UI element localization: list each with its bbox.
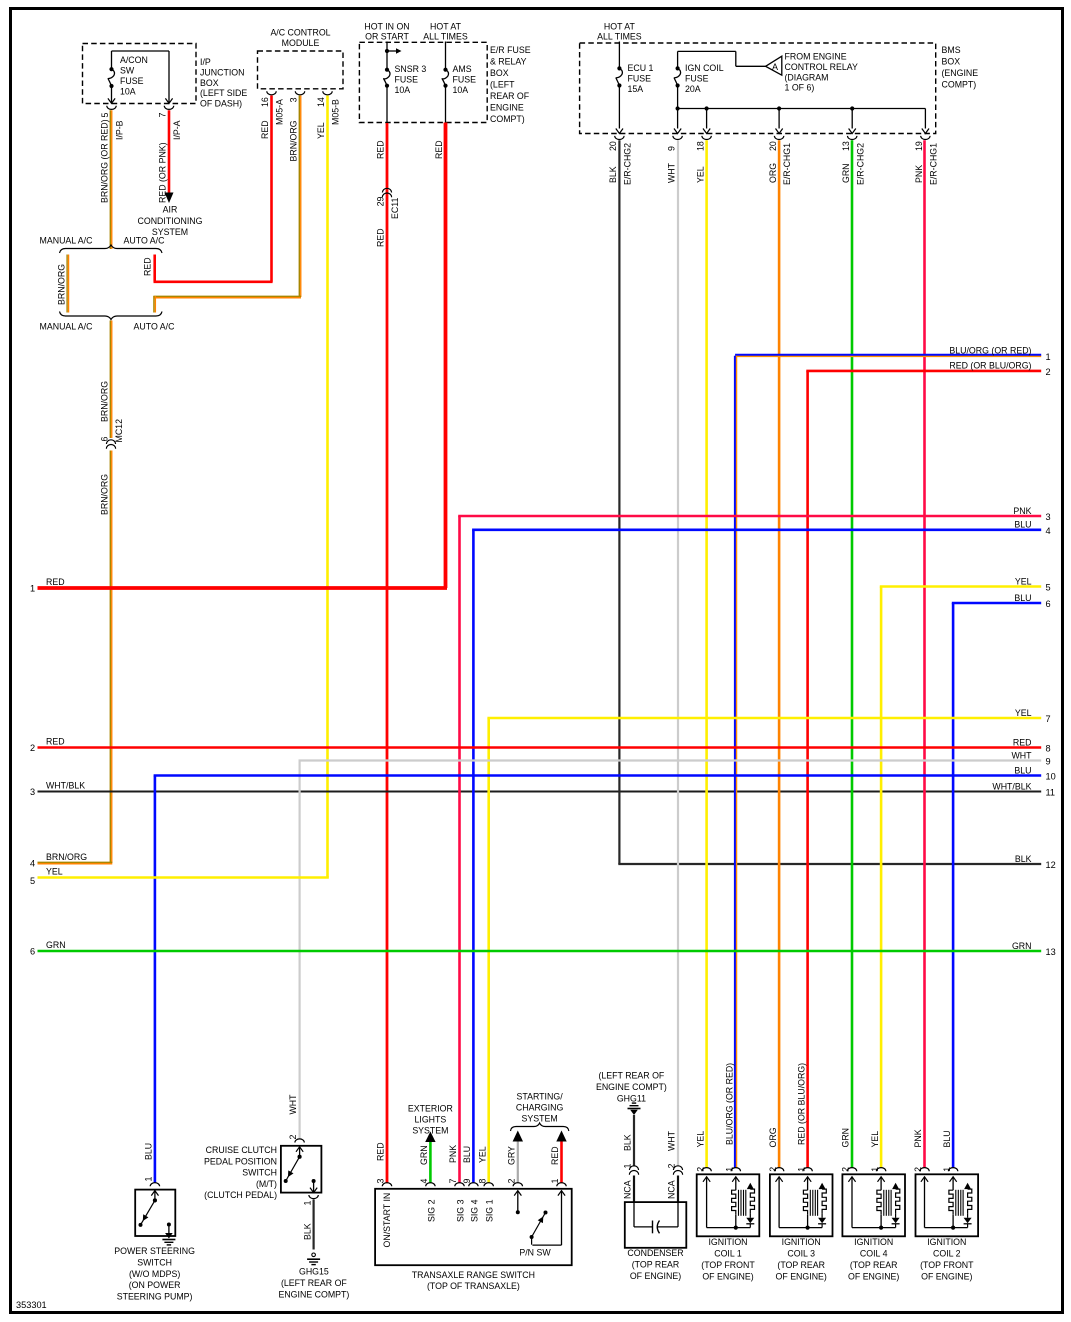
svg-text:2: 2 <box>768 1167 778 1172</box>
pin 16 exit <box>267 91 276 95</box>
svg-text:(ENGINE: (ENGINE <box>942 68 979 78</box>
I/P junction box (dashed) <box>83 44 197 104</box>
svg-text:EXTERIOR: EXTERIOR <box>408 1104 453 1114</box>
svg-text:BLU: BLU <box>1014 765 1031 775</box>
svg-text:2: 2 <box>288 1135 298 1140</box>
svg-text:5: 5 <box>30 876 35 886</box>
svg-text:MANUAL A/C: MANUAL A/C <box>40 322 94 332</box>
svg-text:ALL TIMES: ALL TIMES <box>423 32 468 42</box>
svg-text:3: 3 <box>376 1179 386 1184</box>
internal bus line <box>678 108 926 110</box>
E/R fuse and relay box (dashed) <box>359 42 487 122</box>
coil COIL 2 pin 2 entry <box>920 1168 929 1172</box>
svg-text:RED: RED <box>46 577 65 587</box>
wire RED from SNSR 3 fuse to transaxle pin 3 <box>386 123 389 1183</box>
wire YEL from module pin 14 <box>326 96 329 878</box>
svg-text:BLK: BLK <box>302 1223 312 1240</box>
svg-text:GHG15: GHG15 <box>299 1267 329 1277</box>
svg-text:CONTROL RELAY: CONTROL RELAY <box>785 62 858 72</box>
svg-text:(TOP REAR: (TOP REAR <box>632 1259 680 1269</box>
ignition coil COIL 2 box <box>916 1174 979 1236</box>
svg-text:6: 6 <box>1046 599 1051 609</box>
svg-text:E/R-CHG2: E/R-CHG2 <box>623 143 633 185</box>
exit arrow at x=677.6 <box>674 129 681 134</box>
svg-text:WHT: WHT <box>1011 750 1032 760</box>
svg-text:AUTO A/C: AUTO A/C <box>124 236 166 246</box>
svg-text:(LEFT REAR OF: (LEFT REAR OF <box>281 1278 347 1288</box>
inline connector MC12 <box>106 440 115 444</box>
svg-text:HOT AT: HOT AT <box>604 22 636 32</box>
svg-text:(TOP FRONT: (TOP FRONT <box>920 1260 974 1270</box>
svg-text:1: 1 <box>1046 352 1051 362</box>
svg-text:15A: 15A <box>628 84 644 94</box>
wire BRN/ORG below MC12 to wire 4 <box>109 451 111 864</box>
svg-text:I/P-A: I/P-A <box>172 120 182 140</box>
arrow to air conditioning system <box>165 193 174 204</box>
wire 2 RED (OR BLU/ORG) horizontal <box>806 370 1041 373</box>
svg-text:BLK: BLK <box>623 1134 633 1151</box>
svg-text:2: 2 <box>695 1167 705 1172</box>
svg-text:11: 11 <box>1046 788 1056 798</box>
svg-text:WHT/BLK: WHT/BLK <box>46 780 85 790</box>
svg-text:COMPT): COMPT) <box>490 114 525 124</box>
P/N switch blade <box>531 1237 533 1245</box>
svg-text:7: 7 <box>448 1179 458 1184</box>
internal pin 2 contact <box>514 1191 521 1196</box>
wire 9 WHT horizontal <box>299 759 1042 761</box>
wire 12 BLK horizontal <box>618 863 1041 865</box>
wire 10 BLU horizontal <box>154 774 1042 777</box>
svg-text:RED: RED <box>46 736 65 746</box>
svg-text:I/P-B: I/P-B <box>115 120 125 140</box>
wire YEL to ignition coil 1 pin 2 <box>705 140 708 1168</box>
svg-text:18: 18 <box>695 141 705 151</box>
svg-text:3: 3 <box>1046 512 1051 522</box>
bus drop wires <box>706 109 708 129</box>
fuse A/CON SW 10A <box>111 51 113 69</box>
svg-text:E/R-CHG2: E/R-CHG2 <box>855 143 865 185</box>
svg-text:1: 1 <box>302 1201 312 1206</box>
wire 13 GRN horizontal full width <box>38 950 1042 953</box>
coil COIL 1 primary winding <box>732 1177 739 1182</box>
svg-text:& RELAY: & RELAY <box>490 57 527 67</box>
power steering switch box <box>135 1190 175 1236</box>
svg-text:(W/O MDPS): (W/O MDPS) <box>129 1269 180 1279</box>
svg-text:RED: RED <box>376 228 386 247</box>
svg-text:EC11: EC11 <box>390 198 400 219</box>
svg-text:YEL: YEL <box>695 166 705 183</box>
wire 3 PNK vertical to transaxle pin 7 <box>458 516 461 1183</box>
inline connector EC11 <box>382 188 391 192</box>
svg-text:POWER STEERING: POWER STEERING <box>114 1246 195 1256</box>
pin 1 entry <box>557 1183 566 1187</box>
coil COIL 2 primary winding <box>950 1177 957 1182</box>
svg-text:6: 6 <box>30 947 35 957</box>
wire 11 WHT/BLK horizontal full width <box>38 791 1042 793</box>
svg-text:CRUISE CLUTCH: CRUISE CLUTCH <box>206 1145 277 1155</box>
switch blade <box>286 1157 300 1181</box>
condenser lead wires <box>633 1176 635 1203</box>
wire 7 YEL horizontal <box>487 717 1041 720</box>
svg-text:AMS: AMS <box>453 64 472 74</box>
svg-text:YEL: YEL <box>870 1131 880 1148</box>
arrow from starting/charging to pin 1 <box>556 1131 566 1142</box>
svg-text:(TOP REAR: (TOP REAR <box>850 1260 898 1270</box>
wire RED to transaxle pin 1 <box>560 1142 563 1184</box>
svg-text:3: 3 <box>30 787 35 797</box>
svg-text:BRN/ORG (OR RED): BRN/ORG (OR RED) <box>100 119 110 203</box>
ground GHG11 symbol (inverted) <box>632 1102 636 1104</box>
transaxle range switch box <box>375 1189 572 1265</box>
wire 5 YEL vertical to ignition coil 4 pin 1 <box>880 587 883 1168</box>
svg-text:A: A <box>772 62 778 72</box>
wire 5 YEL horizontal <box>880 585 1041 588</box>
svg-text:ENGINE COMPT): ENGINE COMPT) <box>596 1082 667 1092</box>
svg-text:STEERING PUMP): STEERING PUMP) <box>117 1292 193 1302</box>
svg-text:YEL: YEL <box>316 122 326 139</box>
wire RED from I/P-A <box>168 110 171 192</box>
svg-text:FUSE: FUSE <box>628 73 652 83</box>
svg-text:E/R-CHG1: E/R-CHG1 <box>782 143 792 185</box>
wire 4 BRN/ORG horizontal <box>38 861 113 863</box>
wire RED thick from AMS fuse <box>444 123 448 589</box>
wire WHT to condenser pin 2 <box>677 140 679 1166</box>
svg-text:OF ENGINE): OF ENGINE) <box>921 1271 972 1281</box>
wire BRN/ORG manual a/c branch <box>66 255 68 313</box>
coil COIL 2 pin 1 entry <box>948 1168 957 1172</box>
svg-text:(TOP FRONT: (TOP FRONT <box>701 1260 755 1270</box>
svg-text:RED: RED <box>1013 737 1032 747</box>
wire 6 BLU horizontal <box>952 602 1041 605</box>
svg-text:WHT: WHT <box>667 1130 677 1151</box>
svg-text:OF ENGINE): OF ENGINE) <box>776 1271 827 1281</box>
svg-text:BLU: BLU <box>144 1143 154 1160</box>
svg-text:HOT IN ON: HOT IN ON <box>364 22 409 32</box>
svg-text:CONDENSER: CONDENSER <box>627 1248 683 1258</box>
wire BLK from GHG11 to condenser pin 1 <box>633 1115 635 1167</box>
svg-text:GHG11: GHG11 <box>617 1093 646 1103</box>
svg-text:YEL: YEL <box>1015 708 1032 718</box>
coil COIL 4 pin 1 entry <box>876 1168 885 1172</box>
svg-text:STARTING/: STARTING/ <box>517 1092 564 1102</box>
coil COIL 3 secondary winding <box>819 1183 826 1189</box>
svg-text:1 OF 6): 1 OF 6) <box>785 83 815 93</box>
svg-text:20: 20 <box>768 141 778 151</box>
wire GRY to transaxle pin 2 <box>517 1142 519 1184</box>
junction dot and branch arrow <box>385 49 389 53</box>
svg-text:BRN/ORG: BRN/ORG <box>289 120 299 161</box>
svg-text:FUSE: FUSE <box>453 74 477 84</box>
svg-text:(M/T): (M/T) <box>256 1179 277 1189</box>
switch contact arrow <box>151 1191 158 1196</box>
svg-text:6: 6 <box>100 437 110 442</box>
svg-text:IGNITION: IGNITION <box>927 1237 966 1247</box>
cruise clutch switch box <box>281 1146 322 1193</box>
pin 4 entry <box>426 1183 435 1187</box>
svg-text:12: 12 <box>1046 860 1056 870</box>
wire 5 YEL horizontal <box>38 876 329 879</box>
coil COIL 1 secondary diode <box>746 1218 754 1224</box>
svg-text:COIL 2: COIL 2 <box>933 1249 961 1259</box>
svg-text:RED: RED <box>142 257 152 276</box>
condenser pin 2 connector <box>673 1166 682 1170</box>
svg-text:2: 2 <box>667 1164 677 1169</box>
svg-text:OF ENGINE): OF ENGINE) <box>848 1271 899 1281</box>
svg-text:OF DASH): OF DASH) <box>200 99 242 109</box>
svg-text:SWITCH: SWITCH <box>242 1168 277 1178</box>
svg-text:SIG 3: SIG 3 <box>456 1199 466 1222</box>
svg-text:5: 5 <box>100 113 110 118</box>
svg-text:9: 9 <box>666 146 676 151</box>
svg-text:SW: SW <box>120 66 135 76</box>
exit arrow at x=925.4 <box>922 129 929 134</box>
svg-text:1: 1 <box>144 1177 154 1182</box>
wire 2 RED vertical to ignition coil 3 pin 1 <box>806 371 809 1168</box>
coil COIL 1 pin 1 entry <box>731 1168 740 1172</box>
svg-text:ORG: ORG <box>768 1127 778 1147</box>
svg-text:GRN: GRN <box>419 1145 429 1165</box>
svg-text:FUSE: FUSE <box>395 74 419 84</box>
switch blade <box>141 1200 155 1225</box>
coil COIL 3 secondary diode <box>818 1218 826 1224</box>
wire 8 RED horizontal full width <box>38 746 1042 749</box>
coil COIL 1 primary-left lead <box>703 1177 710 1182</box>
svg-text:14: 14 <box>316 97 326 107</box>
svg-text:10A: 10A <box>395 85 411 95</box>
link from engine control relay <box>678 50 736 52</box>
svg-text:WHT/BLK: WHT/BLK <box>992 781 1031 791</box>
coil COIL 2 secondary winding <box>964 1183 971 1189</box>
svg-text:ALL TIMES: ALL TIMES <box>597 32 642 42</box>
wire 9 WHT vertical to cruise clutch switch pin 2 <box>299 761 301 1140</box>
svg-text:BLK: BLK <box>608 166 618 183</box>
svg-text:BOX: BOX <box>200 78 219 88</box>
svg-text:IGNITION: IGNITION <box>854 1237 893 1247</box>
coil COIL 4 primary-left lead <box>848 1177 855 1182</box>
svg-text:2: 2 <box>913 1167 923 1172</box>
svg-text:8: 8 <box>477 1179 487 1184</box>
wire BRN/ORG from module pin 3 <box>298 96 300 298</box>
wire PNK to ignition coil 2 pin 2 <box>923 140 926 1168</box>
svg-text:4: 4 <box>30 859 35 869</box>
svg-text:M05-A: M05-A <box>275 99 285 125</box>
svg-text:BRN/ORG: BRN/ORG <box>100 474 110 515</box>
ignition coil COIL 1 box <box>697 1174 760 1236</box>
wire hot at all times feed to ECU 1 fuse <box>618 42 620 69</box>
svg-text:4: 4 <box>1046 526 1051 536</box>
svg-text:(DIAGRAM: (DIAGRAM <box>785 72 829 82</box>
svg-text:BMS: BMS <box>942 45 961 55</box>
svg-text:ORG: ORG <box>768 163 778 183</box>
svg-text:RED: RED <box>376 140 386 159</box>
svg-text:20: 20 <box>608 141 618 151</box>
ignition coil COIL 3 box <box>770 1174 833 1236</box>
inner link I/P box <box>112 50 170 52</box>
coil COIL 1 pin 2 entry <box>702 1168 711 1172</box>
svg-text:RED: RED <box>434 140 444 159</box>
svg-text:MODULE: MODULE <box>282 38 320 48</box>
exit arrow at x=619.4 <box>616 129 623 134</box>
switch contact arrow <box>296 1147 303 1152</box>
coil COIL 3 primary-left lead <box>776 1177 783 1182</box>
wire BRN/ORG merged below brace <box>109 321 111 439</box>
svg-text:(LEFT: (LEFT <box>490 80 515 90</box>
wire 3 PNK horizontal <box>458 515 1041 518</box>
wire ORG to ignition coil 3 pin 2 <box>778 140 781 1168</box>
internal pin 1 line P/N switch <box>558 1191 565 1196</box>
svg-text:A/C CONTROL: A/C CONTROL <box>270 28 330 38</box>
svg-text:OF ENGINE): OF ENGINE) <box>702 1271 753 1281</box>
coil COIL 4 pin 2 entry <box>847 1168 856 1172</box>
svg-text:5: 5 <box>1046 583 1051 593</box>
svg-text:20A: 20A <box>685 84 701 94</box>
svg-text:2: 2 <box>1046 367 1051 377</box>
pin 9 entry <box>469 1183 478 1187</box>
ignition coil COIL 4 box <box>842 1174 905 1236</box>
svg-text:MANUAL A/C: MANUAL A/C <box>40 236 94 246</box>
svg-text:NCA: NCA <box>667 1180 677 1199</box>
wire 4 BLU horizontal <box>472 528 1041 531</box>
svg-text:RED: RED <box>550 1146 560 1165</box>
coil COIL 2 secondary diode <box>964 1218 972 1224</box>
svg-text:7: 7 <box>1046 714 1051 724</box>
svg-text:(LEFT REAR OF: (LEFT REAR OF <box>598 1071 664 1081</box>
relay source triangle A <box>766 56 782 75</box>
fuse AMS 10A <box>443 68 447 72</box>
exit arrow at x=852.2 <box>849 129 856 134</box>
wire GRN to transaxle pin 4 <box>429 1142 432 1183</box>
svg-text:BOX: BOX <box>942 57 961 67</box>
fuse IGN COIL 20A <box>677 51 679 68</box>
svg-text:9: 9 <box>1046 757 1051 767</box>
exit arrow at x=779.1 <box>776 129 783 134</box>
A/C control module box (dashed) <box>258 51 344 89</box>
svg-text:E/R-CHG1: E/R-CHG1 <box>929 143 939 185</box>
svg-text:COIL 4: COIL 4 <box>860 1249 888 1259</box>
svg-text:LIGHTS: LIGHTS <box>415 1115 447 1125</box>
svg-text:10: 10 <box>1046 772 1056 782</box>
wire BRN/ORG from I/P-B <box>109 110 111 249</box>
svg-text:BOX: BOX <box>490 68 509 78</box>
svg-text:BLU: BLU <box>1014 520 1031 530</box>
wire RED auto a/c branch <box>153 255 156 282</box>
svg-text:1: 1 <box>870 1167 880 1172</box>
svg-text:FUSE: FUSE <box>685 73 709 83</box>
option brace bottom <box>60 312 163 320</box>
svg-text:M05-B: M05-B <box>331 99 341 125</box>
pin 3 exit <box>295 91 304 95</box>
svg-text:MC12: MC12 <box>114 419 124 443</box>
svg-text:SIG 4: SIG 4 <box>469 1199 479 1222</box>
svg-text:2: 2 <box>841 1167 851 1172</box>
svg-text:SIG 1: SIG 1 <box>485 1199 495 1222</box>
svg-text:SIG 2: SIG 2 <box>426 1199 436 1222</box>
svg-text:I/P: I/P <box>200 57 211 67</box>
wire GRN to ignition coil 4 pin 2 <box>851 140 854 1168</box>
svg-text:RED (OR BLU/ORG): RED (OR BLU/ORG) <box>949 361 1031 371</box>
svg-text:RED (OR BLU/ORG): RED (OR BLU/ORG) <box>796 1063 806 1145</box>
fixed contact pin 1 <box>312 1179 316 1183</box>
svg-text:19: 19 <box>914 141 924 151</box>
pin 8 entry <box>484 1183 493 1187</box>
svg-text:IGNITION: IGNITION <box>708 1237 747 1247</box>
svg-text:SNSR 3: SNSR 3 <box>395 64 427 74</box>
svg-text:A/CON: A/CON <box>120 55 148 65</box>
wire 1 BLU/ORG vertical to ignition coil 1 pin 1 <box>734 356 736 1168</box>
junction dots on bus <box>676 106 680 110</box>
svg-text:OF ENGINE): OF ENGINE) <box>630 1271 681 1281</box>
svg-text:JUNCTION: JUNCTION <box>200 67 244 77</box>
svg-text:GRN: GRN <box>46 940 66 950</box>
pin 14 exit <box>323 91 332 95</box>
svg-text:8: 8 <box>1046 744 1051 754</box>
coil COIL 3 pin 2 entry <box>774 1168 783 1172</box>
coil COIL 3 core <box>809 1190 811 1216</box>
svg-text:FROM ENGINE: FROM ENGINE <box>785 52 847 62</box>
arrow to exterior lights system <box>425 1132 435 1143</box>
svg-text:IGN COIL: IGN COIL <box>685 63 724 73</box>
pin 7 entry <box>455 1183 464 1187</box>
coil COIL 4 secondary diode <box>892 1218 900 1224</box>
coil COIL 2 core <box>955 1190 957 1216</box>
ground GHG15 symbol <box>312 1253 316 1257</box>
ground symbol <box>162 1239 175 1241</box>
svg-text:BLU: BLU <box>462 1146 472 1163</box>
exit arrow at x=706.6 <box>703 129 710 134</box>
svg-text:BLU/ORG (OR RED): BLU/ORG (OR RED) <box>949 346 1031 356</box>
svg-text:(TOP REAR: (TOP REAR <box>777 1260 825 1270</box>
fuse SNSR 3 10A <box>385 68 389 72</box>
svg-text:(TOP OF TRANSAXLE): (TOP OF TRANSAXLE) <box>427 1281 520 1291</box>
svg-text:1: 1 <box>623 1164 633 1169</box>
svg-text:PEDAL POSITION: PEDAL POSITION <box>204 1156 277 1166</box>
svg-text:HOT AT: HOT AT <box>430 22 462 32</box>
svg-text:YEL: YEL <box>695 1131 705 1148</box>
coil COIL 3 pin 1 entry <box>803 1168 812 1172</box>
condenser box <box>625 1202 687 1248</box>
svg-text:GRN: GRN <box>1012 941 1032 951</box>
svg-text:ENGINE: ENGINE <box>490 103 524 113</box>
svg-text:YEL: YEL <box>46 866 63 876</box>
coil COIL 4 secondary winding <box>892 1183 899 1189</box>
wire 6 BLU vertical to ignition coil 2 pin 1 <box>952 603 955 1168</box>
wire RED from module pin 16 <box>270 96 273 282</box>
wire hot in on feed <box>386 42 388 70</box>
wire BLK from ECU 1 fuse <box>618 140 620 864</box>
coil COIL 2 primary-left lead <box>921 1177 928 1182</box>
svg-text:GRN: GRN <box>841 1128 851 1148</box>
svg-text:AUTO A/C: AUTO A/C <box>134 322 176 332</box>
wire 1 BLU/ORG (OR RED) horizontal <box>735 354 1041 356</box>
svg-text:ECU 1: ECU 1 <box>628 63 654 73</box>
BMS box (dashed) <box>580 43 936 134</box>
pin 1 entry connector <box>150 1183 159 1187</box>
svg-text:PNK: PNK <box>448 1145 458 1163</box>
svg-text:2: 2 <box>30 743 35 753</box>
svg-text:CONDITIONING: CONDITIONING <box>138 216 203 226</box>
svg-text:COIL 1: COIL 1 <box>714 1249 742 1259</box>
svg-text:GRN: GRN <box>841 163 851 183</box>
svg-text:1: 1 <box>796 1167 806 1172</box>
coil COIL 4 core <box>883 1190 885 1216</box>
svg-text:ENGINE COMPT): ENGINE COMPT) <box>278 1289 349 1299</box>
wire hot at all times feed <box>445 42 447 70</box>
svg-text:2: 2 <box>507 1179 517 1184</box>
svg-text:RED: RED <box>376 1142 386 1161</box>
svg-text:RED: RED <box>260 120 270 139</box>
svg-text:3: 3 <box>289 97 299 102</box>
svg-text:IGNITION: IGNITION <box>782 1237 821 1247</box>
